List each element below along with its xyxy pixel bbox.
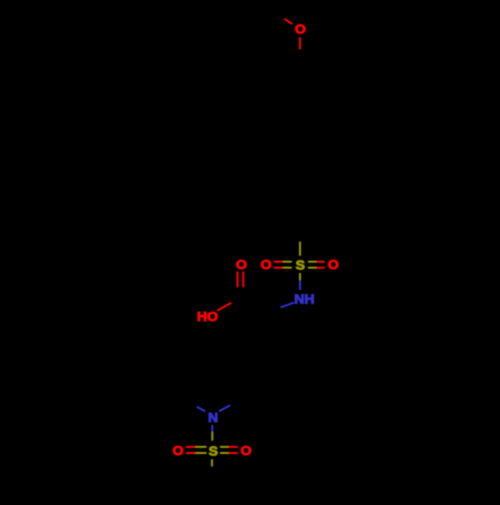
svg-text:S: S <box>296 258 305 272</box>
svg-text:O: O <box>295 22 306 36</box>
svg-text:O: O <box>236 258 247 272</box>
svg-text:NH: NH <box>294 292 314 306</box>
svg-text:N: N <box>208 411 218 425</box>
svg-text:O: O <box>328 257 339 271</box>
svg-text:S: S <box>209 444 218 458</box>
svg-text:HO: HO <box>197 310 218 324</box>
svg-text:O: O <box>261 257 272 271</box>
svg-text:O: O <box>241 444 252 458</box>
svg-text:O: O <box>173 444 184 458</box>
